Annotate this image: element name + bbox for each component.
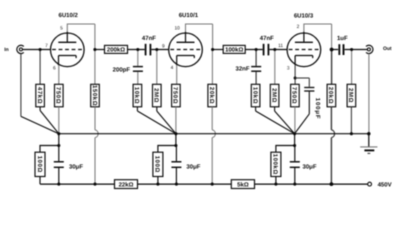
svg-text:100Ω: 100Ω bbox=[154, 156, 161, 173]
svg-text:6U10/2: 6U10/2 bbox=[59, 12, 79, 19]
svg-text:5kΩ: 5kΩ bbox=[237, 181, 249, 188]
svg-text:2MΩ: 2MΩ bbox=[347, 88, 354, 103]
svg-text:200pF: 200pF bbox=[113, 67, 131, 74]
svg-text:450V: 450V bbox=[378, 181, 392, 188]
svg-text:750Ω: 750Ω bbox=[172, 87, 179, 104]
svg-text:750Ω: 750Ω bbox=[291, 87, 298, 104]
svg-text:In: In bbox=[4, 47, 8, 53]
svg-text:100μF: 100μF bbox=[314, 98, 321, 120]
svg-text:10kΩ: 10kΩ bbox=[133, 87, 140, 104]
svg-text:20kΩ: 20kΩ bbox=[208, 87, 215, 104]
svg-text:100Ω: 100Ω bbox=[36, 156, 43, 173]
svg-text:2MΩ: 2MΩ bbox=[270, 88, 277, 103]
svg-text:10: 10 bbox=[175, 26, 181, 32]
svg-text:6U10/3: 6U10/3 bbox=[294, 12, 314, 19]
svg-text:22kΩ: 22kΩ bbox=[119, 181, 134, 188]
svg-text:100kΩ: 100kΩ bbox=[272, 154, 279, 175]
svg-text:2: 2 bbox=[297, 24, 300, 30]
svg-text:1uF: 1uF bbox=[337, 35, 348, 42]
svg-text:750Ω: 750Ω bbox=[55, 87, 62, 104]
svg-text:4: 4 bbox=[171, 65, 174, 71]
svg-text:Out: Out bbox=[383, 46, 392, 52]
svg-text:47nF: 47nF bbox=[260, 35, 274, 42]
svg-text:47nF: 47nF bbox=[142, 35, 156, 42]
svg-text:3: 3 bbox=[287, 66, 290, 72]
svg-text:6: 6 bbox=[53, 66, 56, 72]
svg-text:30μF: 30μF bbox=[303, 163, 317, 170]
svg-text:5: 5 bbox=[60, 25, 63, 31]
svg-text:32nF: 32nF bbox=[235, 66, 249, 73]
svg-text:20kΩ: 20kΩ bbox=[327, 87, 334, 104]
svg-text:47kΩ: 47kΩ bbox=[36, 87, 43, 104]
svg-text:9: 9 bbox=[162, 43, 165, 49]
svg-text:2MΩ: 2MΩ bbox=[153, 88, 160, 103]
svg-text:200kΩ: 200kΩ bbox=[107, 47, 125, 54]
svg-text:11: 11 bbox=[278, 43, 283, 49]
svg-text:30μF: 30μF bbox=[69, 163, 83, 170]
svg-text:6U10/1: 6U10/1 bbox=[179, 12, 199, 19]
svg-text:100kΩ: 100kΩ bbox=[225, 47, 243, 54]
svg-text:7: 7 bbox=[45, 43, 48, 49]
svg-text:10kΩ: 10kΩ bbox=[251, 87, 258, 104]
svg-text:150kΩ: 150kΩ bbox=[91, 85, 98, 106]
svg-text:30μF: 30μF bbox=[186, 163, 200, 170]
